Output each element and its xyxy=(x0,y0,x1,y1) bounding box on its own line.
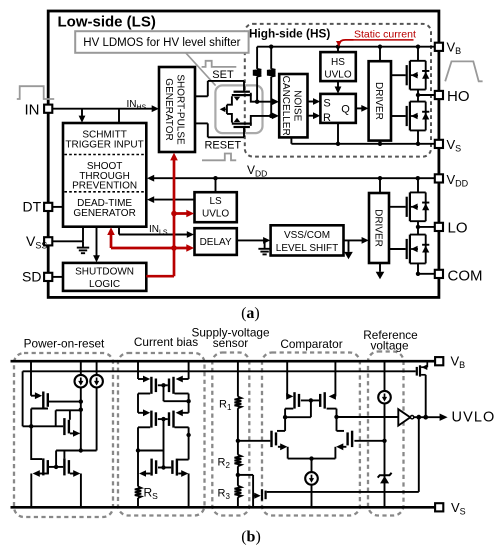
svg-text:(b): (b) xyxy=(241,529,261,546)
svg-text:TRIGGER INPUT: TRIGGER INPUT xyxy=(65,140,143,151)
svg-text:HS: HS xyxy=(331,57,345,68)
svg-text:Low-side (LS): Low-side (LS) xyxy=(58,13,156,30)
svg-text:LOGIC: LOGIC xyxy=(89,279,120,290)
svg-text:SCHMITT: SCHMITT xyxy=(82,129,126,140)
svg-text:HO: HO xyxy=(447,88,470,105)
svg-text:DELAY: DELAY xyxy=(200,237,232,248)
svg-text:VSS/COM: VSS/COM xyxy=(284,230,330,241)
svg-text:(a): (a) xyxy=(241,305,260,322)
svg-text:GENERATOR: GENERATOR xyxy=(163,78,174,140)
svg-text:voltage: voltage xyxy=(370,339,408,353)
svg-text:NOISE: NOISE xyxy=(291,90,302,121)
svg-text:PREVENTION: PREVENTION xyxy=(72,181,137,192)
svg-text:DT: DT xyxy=(23,199,42,215)
svg-text:Comparator: Comparator xyxy=(280,337,342,351)
svg-text:RESET: RESET xyxy=(204,139,241,151)
svg-text:sensor: sensor xyxy=(213,336,248,350)
svg-text:SD: SD xyxy=(22,269,41,285)
svg-text:HV LDMOS for HV level shifter: HV LDMOS for HV level shifter xyxy=(83,37,240,49)
svg-text:S: S xyxy=(323,97,330,109)
svg-text:GENERATOR: GENERATOR xyxy=(73,208,135,219)
svg-text:IN: IN xyxy=(25,102,40,119)
svg-text:Q: Q xyxy=(341,104,350,116)
svg-text:SHUTDOWN: SHUTDOWN xyxy=(75,266,134,277)
svg-text:LEVEL SHIFT: LEVEL SHIFT xyxy=(276,243,338,254)
svg-text:R: R xyxy=(323,112,331,124)
svg-text:LS: LS xyxy=(209,196,222,207)
svg-text:UVLO: UVLO xyxy=(452,410,496,426)
svg-text:UVLO: UVLO xyxy=(324,70,351,81)
svg-text:SET: SET xyxy=(212,69,234,81)
svg-text:Current bias: Current bias xyxy=(134,335,198,349)
svg-text:High-side (HS): High-side (HS) xyxy=(249,26,330,40)
svg-text:DRIVER: DRIVER xyxy=(373,82,384,120)
svg-text:DRIVER: DRIVER xyxy=(373,209,384,247)
svg-text:UVLO: UVLO xyxy=(202,209,229,220)
svg-text:CANCELLER: CANCELLER xyxy=(280,76,291,136)
svg-text:LO: LO xyxy=(448,220,468,237)
svg-text:Static current: Static current xyxy=(354,29,416,41)
svg-text:COM: COM xyxy=(448,267,483,284)
svg-text:Power-on-reset: Power-on-reset xyxy=(24,337,105,351)
svg-text:SHORT-PULSE: SHORT-PULSE xyxy=(174,74,185,145)
